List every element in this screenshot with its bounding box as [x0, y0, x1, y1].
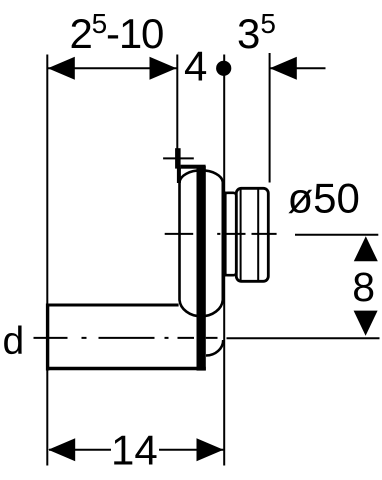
svg-text:4: 4 — [184, 43, 207, 90]
svg-text:25-10: 25-10 — [70, 8, 164, 57]
svg-text:14: 14 — [111, 427, 158, 474]
svg-text:d: d — [3, 320, 25, 363]
svg-text:8: 8 — [352, 264, 375, 310]
svg-text:ø50: ø50 — [288, 175, 360, 222]
